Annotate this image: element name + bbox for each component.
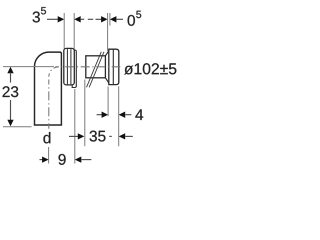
dimension 35 text <box>90 131 106 142</box>
flange outline <box>109 49 119 84</box>
dimension 23 line upper segment with up arrow <box>7 67 13 83</box>
dimension 9 left extension line <box>48 147 50 164</box>
sleeve break mark line 2 <box>89 52 104 88</box>
bend axis arc centerline <box>49 67 59 77</box>
dimension 4 right arrow <box>119 112 132 118</box>
dimension 0-5 right arrow <box>110 16 123 22</box>
dimension 35 right arrow <box>119 133 133 139</box>
dimension 4 left extension line <box>107 87 109 117</box>
label diameter 102 text <box>124 63 176 74</box>
dimension 23 bottom extension line <box>3 126 32 128</box>
sleeve break mark line 1 <box>87 52 102 88</box>
dimension 35 short dash <box>109 135 112 137</box>
dimension 3-5 left arrow <box>47 16 64 22</box>
socket bead inner line 1 <box>66 49 68 84</box>
extension line sleeve end down <box>84 80 86 147</box>
extension line bead left <box>63 13 65 49</box>
dimension 9 text <box>59 154 66 165</box>
dimension 0-5 left arrow <box>96 16 108 22</box>
elbow body outline <box>35 52 62 125</box>
dimension 35 left arrow <box>69 133 84 139</box>
outlet vertical centerline <box>48 80 50 85</box>
dimension 4 left arrow <box>97 112 109 118</box>
label d text <box>43 132 50 143</box>
sleeve body <box>86 56 106 78</box>
dimension 23 line lower segment with down arrow <box>7 100 13 126</box>
extension line sleeve chamfer <box>107 13 109 51</box>
horizontal axis centerline <box>55 66 59 68</box>
socket bead <box>64 48 75 85</box>
dash between top dimensions <box>88 18 93 20</box>
flange inner line <box>112 49 114 84</box>
extension line bead right <box>73 13 75 50</box>
socket collar step <box>72 50 76 88</box>
dimension 4 text <box>135 109 143 120</box>
dimension 3-5 text <box>33 7 46 22</box>
extension line socket end down <box>74 89 76 164</box>
dimension 9 left arrow <box>40 156 49 162</box>
dimension 0-5 text <box>128 11 142 26</box>
dimension 9 right arrow <box>75 156 92 162</box>
extension line flange right long <box>118 86 120 146</box>
sleeve chamfer top <box>105 51 108 56</box>
dimension 23 text <box>3 86 19 97</box>
socket bead inner line 2 <box>70 49 72 84</box>
extension line flange left short <box>109 13 111 26</box>
dimension 23 top extension line <box>3 66 54 68</box>
dimension 3-5 right arrow <box>74 16 84 22</box>
sleeve chamfer bottom <box>105 78 108 83</box>
